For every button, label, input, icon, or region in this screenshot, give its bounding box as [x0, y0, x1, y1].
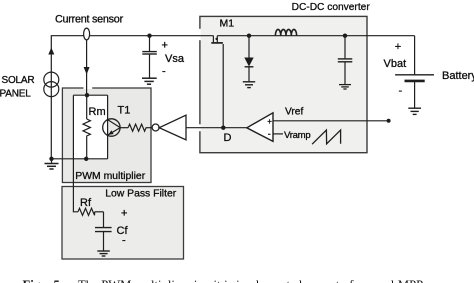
- wire: inverter input from node D: [186, 127, 247, 129]
- wire: top bus right of M1: [217, 35, 414, 37]
- wire: output cap drop: [344, 36, 346, 59]
- wire: loop left / to LPF: [73, 95, 78, 212]
- svg-text:T1: T1: [118, 104, 131, 116]
- node: Rm bottom: [84, 157, 88, 161]
- svg-text:Low Pass Filter: Low Pass Filter: [105, 188, 177, 199]
- capacitor Cf: [95, 228, 112, 251]
- ground below battery: [408, 108, 421, 114]
- current sensor ellipse: [84, 28, 90, 40]
- wire: Vref input: [273, 120, 389, 122]
- svg-text:+: +: [121, 208, 127, 220]
- svg-text:PANEL: PANEL: [0, 89, 31, 100]
- resistor Rm: [83, 95, 90, 159]
- wire: sensor drop: [86, 40, 88, 95]
- wire: M1 gate drop to node D: [222, 44, 224, 128]
- wire: to inverter bubble: [147, 127, 153, 129]
- wire: T1 base lead: [120, 127, 128, 129]
- transistor T1: [103, 95, 120, 159]
- svg-text:M1: M1: [220, 17, 235, 29]
- node: cap tap: [343, 34, 347, 38]
- node: Vsa tap: [147, 34, 151, 38]
- caption: [23, 278, 44, 283]
- inductor L: [275, 29, 296, 35]
- border gap at DC-DC left edge inverter wire crossing: [199, 124, 201, 131]
- border gap at sensor wire crossing: [84, 87, 93, 89]
- diode D1: [244, 58, 253, 82]
- svg-text:Vsa: Vsa: [165, 53, 185, 65]
- border gap at DC-DC left edge top wire crossing: [199, 29, 201, 40]
- wire: diode drop: [248, 36, 250, 58]
- sensor drop arrowhead: [84, 67, 90, 75]
- svg-text:Rm: Rm: [89, 106, 106, 118]
- resistor Rb: [128, 124, 146, 131]
- wire: Cf drop: [103, 212, 105, 227]
- DC-DC converter box: [200, 16, 367, 152]
- svg-text:-: -: [122, 234, 126, 246]
- svg-text:+: +: [395, 41, 401, 53]
- svg-text:D: D: [224, 132, 232, 144]
- inverter bubble: [152, 124, 159, 131]
- svg-text:Battery: Battery: [442, 70, 474, 82]
- Vramp sawtooth: [312, 130, 341, 144]
- PWM multiplier box: [62, 88, 151, 183]
- wire: loop bottom: [52, 158, 108, 160]
- current source arrow: [48, 48, 54, 55]
- node: loop bottom left: [49, 157, 53, 161]
- inner white loop region: [73, 95, 107, 158]
- node: diode tap: [247, 34, 251, 38]
- svg-text:+: +: [162, 39, 168, 51]
- svg-text:+: +: [267, 117, 272, 126]
- wire: Vsa drop: [149, 36, 151, 51]
- node: sensor line joins loop: [85, 93, 89, 97]
- solar panel current source: [44, 72, 59, 87]
- wire: top bus: [51, 36, 213, 159]
- svg-text:-: -: [399, 85, 403, 97]
- node D junction: [221, 126, 225, 130]
- ground below Cout: [339, 85, 351, 89]
- svg-text:Vramp: Vramp: [284, 130, 310, 141]
- svg-text:Rf: Rf: [80, 197, 92, 209]
- wire: Vramp stub: [273, 133, 283, 135]
- svg-text:PWM multiplier: PWM multiplier: [75, 171, 145, 182]
- svg-text:-: -: [268, 129, 271, 139]
- capacitor Vsa: [142, 51, 157, 53]
- wire: LPF Rf lead: [95, 211, 104, 213]
- resistor Rf: [78, 208, 95, 215]
- svg-text:DC-DC converter: DC-DC converter: [292, 2, 371, 13]
- capacitor Cout: [338, 59, 353, 84]
- svg-text:Current sensor: Current sensor: [55, 14, 124, 26]
- MOSFET M1: [211, 36, 223, 43]
- node: Vref wire end: [387, 119, 391, 123]
- svg-text:Vbat: Vbat: [384, 58, 407, 70]
- svg-text:Vref: Vref: [285, 106, 303, 117]
- low pass filter box: [62, 187, 184, 260]
- svg-text:-: -: [162, 65, 166, 77]
- wire: battery branch: [414, 36, 416, 75]
- ground below Vsa: [142, 78, 157, 84]
- ground below Cf: [97, 251, 110, 256]
- inverter U2: [159, 115, 186, 140]
- wire: inner loop top: [73, 94, 107, 96]
- battery B1: [395, 75, 434, 108]
- comparator U1: [247, 113, 273, 142]
- ground below diode: [243, 82, 255, 88]
- svg-text:SOLAR: SOLAR: [2, 75, 35, 86]
- ground at loop bottom: [45, 159, 59, 169]
